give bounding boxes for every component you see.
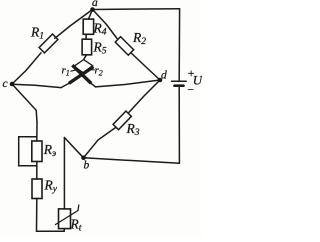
wire R1 diagonal lower part: c to R1 box: [12, 53, 41, 84]
resistor R4: [83, 19, 93, 34]
slider diamond: [74, 60, 93, 73]
svg-text:a: a: [92, 0, 98, 9]
wire slide contact to d (right part of c-d wire): [96, 80, 160, 87]
svg-text:r2: r2: [95, 65, 103, 78]
wire thin leg X lower-left to c-wire: [61, 83, 69, 87]
svg-text:d: d: [161, 70, 167, 82]
svg-text:b: b: [84, 160, 90, 172]
node d: [158, 78, 163, 83]
svg-text:Rt: Rt: [70, 217, 82, 234]
wire into R_e box: [36, 122, 38, 141]
battery U short plate (-): [175, 84, 184, 87]
svg-text:U: U: [193, 73, 202, 88]
svg-text:R3: R3: [126, 121, 140, 138]
r2 label leader dash: [89, 68, 94, 71]
R_t adjustment diagonal arrow: [56, 205, 79, 225]
battery U long plate (+): [172, 80, 187, 82]
wire R4 to R5: [85, 34, 87, 39]
svg-text:c: c: [3, 78, 8, 90]
wire thin leg X lower-right to d-wire: [91, 83, 95, 87]
resistor R2: [115, 37, 133, 55]
wire R_y to bottom: [36, 199, 38, 232]
resistor R5: [82, 39, 92, 55]
resistor R_y: [32, 179, 42, 199]
wire R3 diagonal upper: d to R3 box: [129, 80, 160, 113]
wire bottom to R_t: [63, 229, 65, 232]
svg-text:R1: R1: [30, 25, 44, 42]
node b: [81, 156, 86, 161]
resistor R_t: [59, 209, 71, 229]
wire R_t up to corner: [63, 138, 65, 209]
wire R_e to R_y: [36, 162, 38, 180]
bypass (shunt) rectangle around R_e: [19, 137, 37, 166]
wire a to R4: [89, 10, 93, 20]
wire bottom-left horizontal: [37, 230, 65, 232]
svg-text:R5: R5: [93, 40, 107, 57]
wire R3 diagonal lower: R3 box to node b: [84, 128, 116, 158]
wire right vertical lower: battery to bottom-right corner: [178, 87, 180, 164]
node a: [90, 7, 95, 12]
wire right vertical upper: corner to battery + plate: [178, 9, 180, 81]
node c: [10, 82, 15, 87]
wire c diagonal down to left chain: [12, 84, 37, 122]
wire R2 diagonal lower: R2 box to node d: [132, 54, 160, 81]
resistor R1: [39, 34, 58, 53]
r1 label leader dash: [71, 70, 77, 71]
wire c to slide contact (left part of c-d wire): [12, 84, 61, 87]
resistor R3: [113, 111, 131, 130]
wire bottom-right: corner to node b: [84, 158, 180, 164]
svg-text:Rэ: Rэ: [43, 142, 56, 159]
wire R1 diagonal upper part: R1 box to node a: [55, 10, 93, 39]
wire top: node a to top-right corner: [93, 8, 180, 11]
svg-text:Rу: Rу: [44, 178, 58, 195]
wire corner diagonal to node b: [64, 138, 83, 158]
contact resistance r2 thick stroke: [72, 65, 91, 83]
svg-text:R2: R2: [132, 30, 146, 47]
wire R2 diagonal upper: a to R2 box: [93, 10, 118, 39]
contact resistance r1 thick stroke: [69, 67, 94, 84]
resistor R_e: [32, 141, 42, 162]
wire R5 to slider diamond: [84, 55, 87, 60]
svg-text:r1: r1: [62, 65, 70, 78]
